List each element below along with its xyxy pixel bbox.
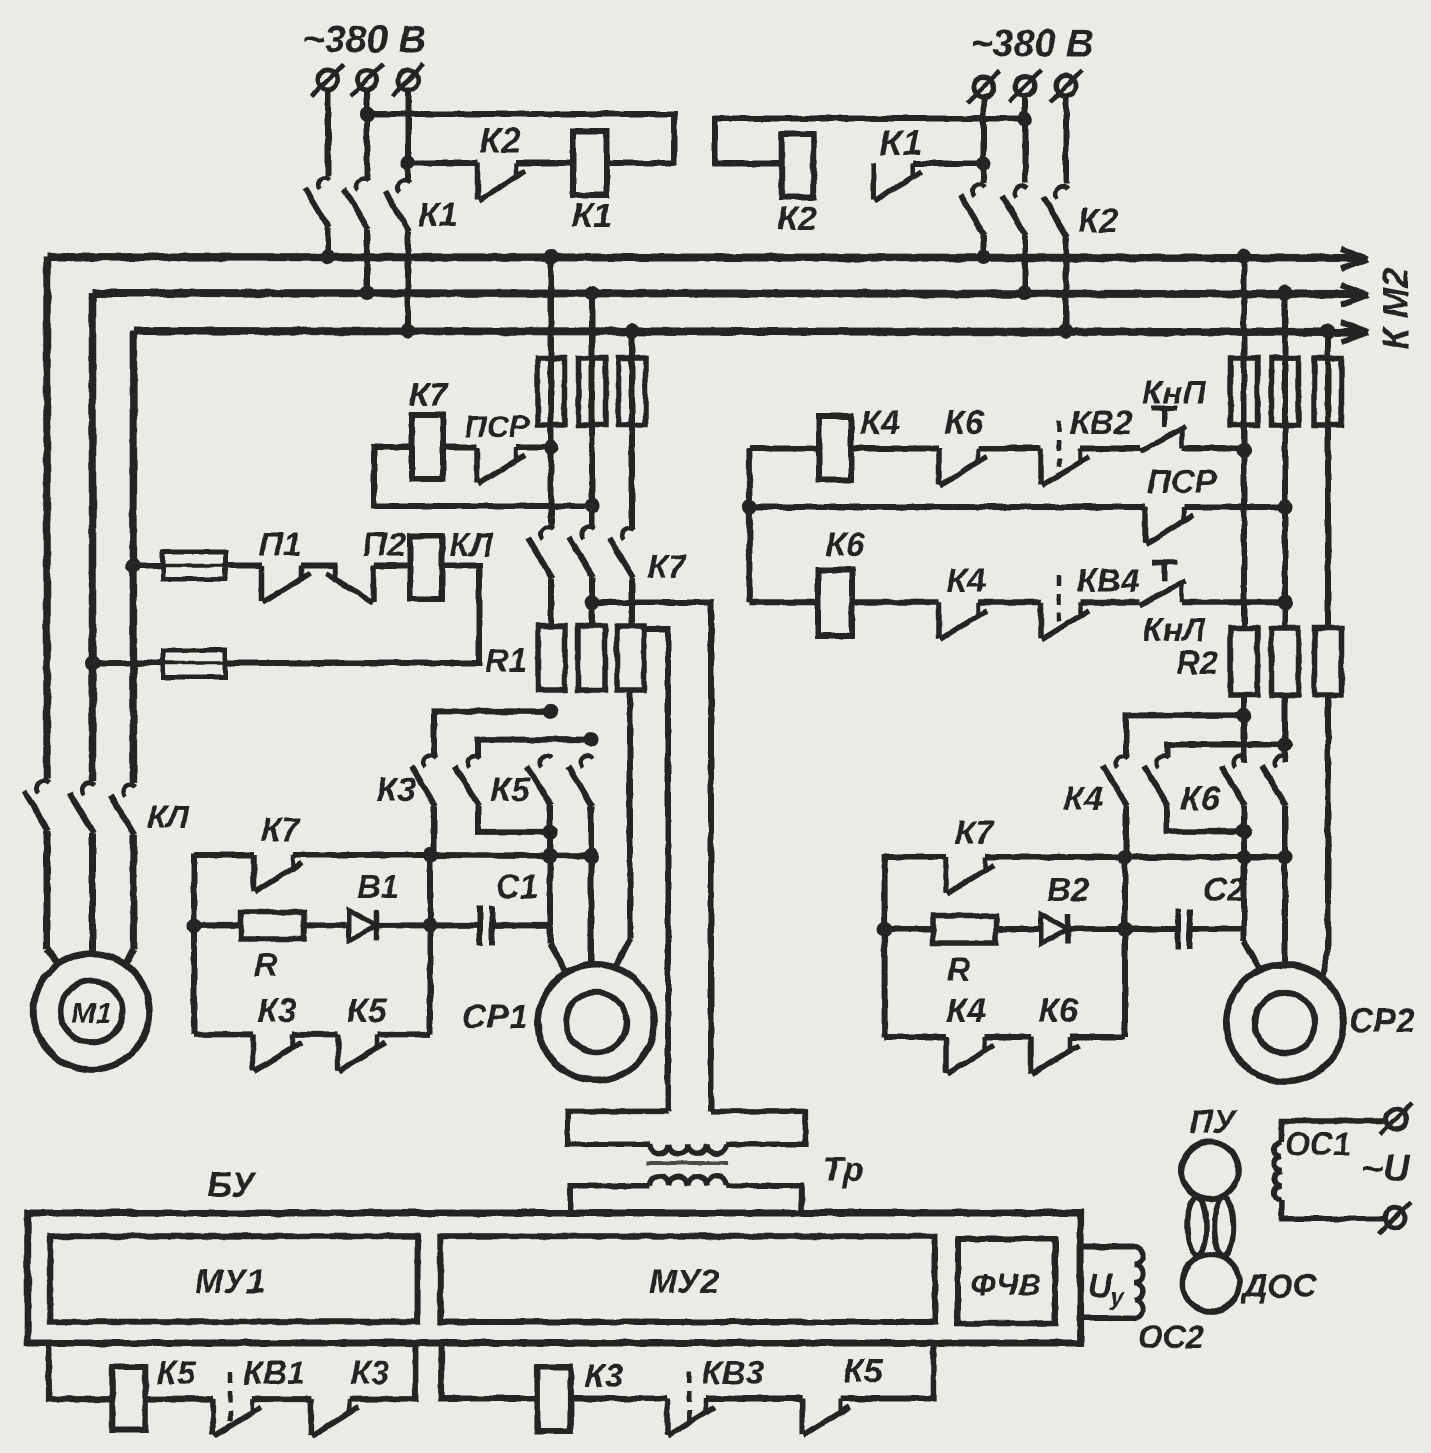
motor M1 [34, 954, 150, 1070]
contact KV1 (NC) [145, 1372, 261, 1436]
label K3 coil [585, 1357, 624, 1394]
wire MU1 row drop right [350, 1343, 416, 1399]
contact K3 (NC discharge left) [194, 1034, 338, 1071]
terminal X5 phase B right [1009, 70, 1041, 102]
label K1 [880, 122, 922, 163]
node bus3/K2 [1059, 324, 1074, 339]
wire transformer feed 1 [644, 629, 668, 1111]
node phase C / K2 contact tap [401, 156, 416, 171]
label V2 [1047, 871, 1090, 908]
label K7 switch [648, 548, 688, 585]
node wireC/pole3 right [1237, 850, 1252, 865]
node V1 branch top [423, 848, 438, 863]
label FChV [971, 1267, 1040, 1302]
wire discharge box left edge [191, 853, 197, 1034]
wire fuse column 1 [548, 257, 554, 529]
contact K7 (NC discharge right) [885, 857, 1125, 894]
label MU2 [649, 1263, 719, 1301]
coil K4 [819, 416, 851, 480]
wire fuse column r1 [1241, 257, 1247, 763]
label ~U [1362, 1148, 1412, 1189]
contact K3 (NC MU1 row) [252, 1399, 359, 1436]
block MU1 [50, 1236, 417, 1322]
switch K1 pole 1 [305, 178, 330, 257]
wire MU1 row drop left [49, 1343, 112, 1399]
contact K5 (NC discharge left) [338, 1034, 430, 1071]
label M1 [71, 998, 111, 1030]
wire R2-3 to SR2 [1322, 695, 1328, 976]
label OS1 [1285, 1126, 1351, 1162]
fuse Pr2 [93, 650, 226, 677]
label P2 [362, 526, 405, 564]
node V2 branch top [1118, 850, 1133, 865]
label KnL [1143, 611, 1207, 648]
label R right [947, 951, 971, 988]
node bus2/K1 [360, 286, 375, 301]
label PSR right [1147, 463, 1218, 500]
wire phase B left stem [364, 91, 370, 178]
wire phase C right stem [1063, 97, 1069, 184]
wire bus2 left drop [89, 293, 97, 781]
switch K6 pole a [1144, 756, 1244, 832]
node crossover A right tap [1237, 708, 1252, 723]
resistor R left [194, 912, 304, 939]
node bus1/K2 [976, 250, 991, 265]
wire discharge box right right edge [1122, 857, 1128, 1037]
label K1 coil [572, 197, 612, 235]
label KV1 [243, 1354, 305, 1391]
fuse Pr1 [133, 552, 262, 579]
switch K5 pole a [455, 756, 550, 832]
switch K3 pole b [527, 756, 566, 972]
contact K5 (NC MU2 row) [706, 1399, 850, 1436]
label PU [1189, 1103, 1238, 1140]
node crossover A tap [544, 704, 559, 719]
wire fuse column 2 [589, 293, 595, 528]
contact K2 (NC interlock, left) [408, 163, 573, 200]
label ~380V left supply [302, 19, 426, 61]
label BU [207, 1166, 257, 1205]
arrow bus 3 [1341, 322, 1368, 342]
switch K2 pole 2 [1002, 186, 1027, 293]
wire crossover B right [1167, 745, 1285, 757]
diode V2 [996, 914, 1125, 944]
wire discharge box right edge [427, 855, 433, 1034]
wire KL coil return [225, 566, 479, 664]
node K6a / pole3 join right [1237, 824, 1252, 839]
node R branch left right [877, 922, 892, 937]
label MU1 [195, 1263, 265, 1301]
label KL coil [450, 526, 494, 563]
switch KL pole 1 [24, 781, 60, 966]
wire bus1 left drop [43, 257, 51, 779]
switch K1 pole 3 [385, 181, 410, 331]
motor SR1 [538, 964, 654, 1080]
label K4 switch [1063, 780, 1103, 818]
label P1 [258, 526, 301, 564]
fuse F4 [1231, 358, 1258, 425]
node transformer feed 2 tap [585, 595, 600, 610]
label K3 discharge [257, 992, 297, 1030]
node crossover B tap [584, 732, 599, 747]
label KV4 [1077, 562, 1139, 599]
label Uy [1088, 1267, 1126, 1311]
resistor R2-1 [1231, 628, 1258, 695]
wire fuse column r3 [1325, 331, 1331, 628]
switch K2 pole 3 [1043, 187, 1068, 331]
label K1 switch [418, 196, 458, 234]
label K6 switch [1180, 780, 1221, 818]
capacitor C1 [430, 905, 550, 945]
label KnP [1142, 374, 1207, 411]
fuse F5 [1272, 358, 1299, 425]
bus line 1 [47, 257, 1362, 258]
node K5a / pole3 join [543, 824, 558, 839]
transformer Tr secondary [570, 1176, 801, 1213]
node phase B / interlock tap right [1018, 111, 1033, 126]
coil K6 [818, 570, 852, 636]
coil K1 [573, 131, 607, 195]
label DOS [1240, 1267, 1318, 1304]
label K5 discharge [347, 992, 388, 1030]
button KnL [1080, 562, 1285, 605]
label R2 [1176, 644, 1219, 681]
switch K4 pole a [1103, 756, 1128, 857]
switch KL pole 3 [110, 785, 135, 966]
label K5 coil [157, 1354, 196, 1391]
terminal X2 phase B left [351, 64, 383, 96]
label K5 switch [490, 771, 531, 809]
label K4 coil [860, 404, 900, 442]
wire K7 row to poles right [1125, 854, 1285, 860]
switch K4 pole b [1221, 756, 1261, 971]
label K7 discharge right [955, 814, 995, 851]
selsyn DOS [1183, 1255, 1240, 1312]
node V1 / C1 junction [423, 918, 438, 933]
label K6 row1 [944, 404, 985, 442]
label K2 [479, 120, 521, 161]
switch K6 pole b [1262, 756, 1287, 965]
wire phase A left stem [325, 91, 331, 176]
coil K5 (MU1 row) [112, 1367, 145, 1430]
contact PSR (NC) [443, 447, 551, 484]
winding OS2 (Uy) [1081, 1247, 1143, 1318]
arrow bus 1 [1341, 249, 1368, 269]
fuse F1 [538, 358, 565, 425]
terminal OS1 bottom [1379, 1202, 1411, 1234]
node bus1 mid drop [544, 250, 559, 265]
node bus1 right drop [1237, 250, 1252, 265]
node R branch left [187, 918, 202, 933]
terminal X6 phase C right [1050, 70, 1082, 102]
contact PSR right (NC) [749, 507, 1285, 544]
fuse F6 [1315, 358, 1342, 425]
wire crossover A left [434, 711, 551, 756]
wire transformer feed 2 [592, 603, 711, 1112]
label SR1 [462, 998, 528, 1036]
switch K1 pole 2 [344, 179, 369, 293]
transformer Tr primary [568, 1111, 806, 1153]
selsyn PU [1182, 1142, 1239, 1199]
resistor R1-3 [617, 626, 644, 690]
wire discharge box right left edge [882, 855, 888, 1037]
label ~380V right supply [970, 23, 1094, 65]
contact K4 (NC row3) [852, 602, 987, 639]
wire fuse column 3 [629, 331, 635, 529]
node phase B / interlock tap [360, 107, 375, 122]
switch KL pole 2 [70, 783, 95, 955]
coil K7 [412, 415, 443, 479]
wire MU2 row drop left [441, 1343, 537, 1399]
bus line 3 [133, 331, 1362, 332]
coil KL [410, 536, 442, 599]
button KnP [1080, 409, 1244, 452]
bus line 2 [93, 293, 1363, 294]
contact KV3 (NC) [570, 1372, 715, 1436]
switch K7 pole 1 [528, 528, 553, 626]
wire K2-coil loop top [715, 119, 1025, 164]
winding OS1 [1274, 1121, 1384, 1219]
switch K3 pole a [411, 756, 436, 856]
contact K6 (NC row1) [851, 449, 987, 486]
wire crossover A right [1126, 715, 1244, 756]
label KV3 [702, 1354, 764, 1391]
block BU outline [28, 1213, 1081, 1343]
label K2 switch [1078, 202, 1118, 240]
coil K7 box [374, 447, 592, 506]
switch K7 pole 2 [569, 527, 594, 626]
label K4 row3 [946, 562, 986, 600]
label K4 discharge [946, 992, 986, 1030]
wire crossover B left [478, 740, 591, 756]
label C2 [1203, 871, 1246, 908]
wire control left rail [746, 449, 752, 603]
label C1 [496, 868, 538, 905]
node V2 / C2 junction [1118, 922, 1133, 937]
label KV2 [1070, 404, 1133, 441]
terminal X4 phase A right [968, 71, 1000, 103]
label K3 (MU1 row) [351, 1354, 390, 1391]
label K5 (MU2 row) [844, 1352, 883, 1389]
label OS2 [1138, 1319, 1204, 1355]
arrow bus 2 [1341, 285, 1368, 305]
terminal X3 phase C left [392, 64, 424, 96]
diode V1 [304, 910, 430, 940]
contact K1 (NC interlock, right) [874, 164, 984, 201]
wire row3 lead [749, 599, 818, 605]
wire bus3 left drop [130, 331, 138, 783]
label R1 [485, 642, 527, 679]
node bus1/K1 [321, 250, 336, 265]
transformer core [647, 1161, 728, 1165]
node K7-PSR top tap [544, 440, 559, 455]
node bus2 mid drop [585, 286, 600, 301]
node bus3 mid drop [625, 324, 640, 339]
contact K4 (NC discharge right) [885, 1037, 1031, 1074]
label V1 [357, 868, 399, 905]
node row1 / fuse column r1 [1237, 443, 1252, 458]
label K3 switch [376, 771, 416, 809]
label SR2 [1349, 1002, 1415, 1040]
node fuse feed bus2 [85, 656, 100, 671]
resistor R1-2 [578, 626, 605, 690]
fuse F2 [579, 358, 606, 425]
node control rail / PSR row [742, 500, 757, 515]
label PSR left [464, 409, 530, 444]
node fuse feed bus3 [126, 558, 141, 573]
switch K7 pole 3 [609, 528, 634, 626]
label KL switch [147, 799, 190, 835]
node bus3 right drop [1321, 324, 1336, 339]
node bus2 right drop [1278, 286, 1293, 301]
wire phase C left stem [405, 91, 411, 180]
wire phase A right stem [981, 98, 987, 183]
wire fuse column r2 [1282, 293, 1288, 762]
block FChV [958, 1239, 1055, 1323]
resistor R1-1 [538, 626, 565, 690]
switch K5 pole b [568, 756, 593, 965]
node K6 row / column r2 [1278, 595, 1293, 610]
wire K1-coil loop top [367, 114, 674, 163]
node wireC/pole4 right [1278, 850, 1293, 865]
contact KV4 (NC) [978, 575, 1089, 639]
wire row1 lead [749, 446, 819, 452]
node bus3/K1 [401, 324, 416, 339]
label K7 coil [409, 376, 449, 413]
label R left [254, 946, 278, 983]
wire K7 row to poles [430, 852, 591, 859]
resistor R2-3 [1315, 628, 1342, 695]
node bus2/K2 [1018, 286, 1033, 301]
contact P2 (NC mirrored) [326, 566, 410, 603]
contact P1 (NC) [262, 566, 337, 603]
label K2 coil [777, 200, 817, 238]
motor SR2 [1226, 964, 1343, 1081]
coil K2 [782, 134, 814, 197]
mechanical link [1188, 1198, 1234, 1256]
contact KV2 (NC) [978, 421, 1089, 486]
node PSR row / column r2 [1278, 500, 1293, 515]
capacitor C2 [1125, 909, 1244, 949]
wire MU2 row drop right [841, 1343, 934, 1399]
node K7-PSR bottom tap [585, 499, 600, 514]
terminal OS1 top [1380, 1103, 1412, 1135]
node wireC/pole4 [584, 848, 599, 863]
label K6 coil [825, 526, 866, 564]
resistor R right [885, 916, 996, 943]
node phase A / K1 contact tap [976, 156, 991, 171]
label K M2 (rotated) [1375, 268, 1416, 350]
block MU2 [440, 1236, 935, 1322]
label K6 discharge [1038, 992, 1079, 1030]
fuse F3 [619, 358, 646, 425]
node crossover B right tap [1278, 737, 1293, 752]
resistor R2-2 [1272, 628, 1299, 695]
label K7 discharge left [261, 811, 301, 848]
coil K3 (MU2 row) [537, 1367, 570, 1431]
wire R1-3 to SR1 [616, 690, 630, 966]
label Tr [823, 1151, 864, 1189]
switch K2 pole 1 [961, 185, 986, 257]
wire phase B right stem [1022, 97, 1028, 183]
contact K6 (NC discharge right) [1031, 1037, 1125, 1074]
contact K7 (NC discharge left) [194, 855, 430, 892]
terminal X1 phase A left [312, 64, 344, 96]
node wireC/pole3 [543, 848, 558, 863]
